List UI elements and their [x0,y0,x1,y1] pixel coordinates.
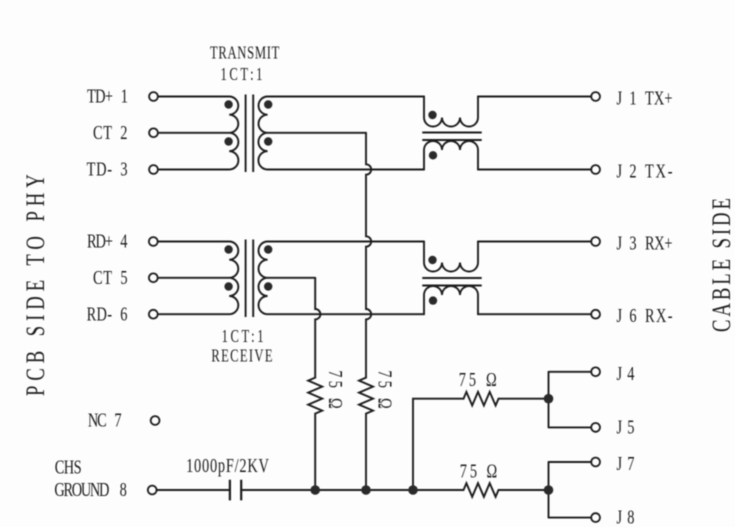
terminal pin 8 CHS GROUND [148,486,157,495]
resistor R4 75ohm horizontal on bus [464,483,499,497]
svg-text:RD-: RD- [87,302,113,325]
svg-text:1CT:1: 1CT:1 [222,327,264,347]
phase dot T1 secondary top [264,100,272,108]
terminal J3 [591,237,600,246]
wire vertical from T2 center tap with hop (x=315.2) [315,278,320,378]
svg-text:TD-: TD- [87,157,113,180]
wire vertical from T1 center tap with hops (x=366) [366,133,371,378]
terminal J2 [591,165,600,174]
svg-text:1: 1 [121,84,128,107]
phase dot L1 bottom [429,151,437,159]
resistor R1 75ohm vertical (x=315.2) [308,378,322,490]
svg-text:CABLE SIDE: CABLE SIDE [707,198,735,332]
svg-text:2: 2 [120,121,127,144]
svg-text:7: 7 [114,408,121,431]
terminal pin 5 CT [149,273,158,282]
wire J4/J5 split [549,372,592,428]
junction node bus/R1 [310,485,320,495]
svg-text:RD+: RD+ [87,229,113,252]
wire J2 line [478,169,591,171]
wire bus resistor to J7/J8 junction [499,489,549,491]
svg-text:RX+: RX+ [645,231,673,254]
svg-text:GROUND: GROUND [54,478,109,501]
terminal pin 6 RD- [149,310,158,319]
choke L1 core [422,133,481,141]
transformer T1 primary winding (TRANSMIT) [158,97,238,170]
resistor R3 75ohm horizontal (to J4/J5) [464,392,499,406]
transformer T2 primary winding (RECEIVE) [158,242,238,315]
terminal pin 1 TD+ [149,92,158,101]
phase dot T2 secondary top [264,245,272,253]
svg-text:CHS: CHS [55,455,82,478]
svg-text:6: 6 [120,302,127,325]
phase dot L2 top [428,256,436,264]
capacitor C1 1000pF/2KV [230,480,241,501]
junction node bus/R2 [361,485,371,495]
terminal pin 7 NC [151,416,160,425]
terminal pin 4 RD+ [149,237,158,246]
svg-text:1000pF/2KV: 1000pF/2KV [186,454,269,477]
wire J7/J8 split [549,462,592,518]
terminal J8 [591,513,600,522]
svg-text:8: 8 [120,478,127,501]
terminal J6 [591,310,600,319]
wire R3 to J4/J5 junction [499,398,549,400]
terminal J1 [591,92,600,101]
wire branch up from bus to R3 [413,399,464,490]
phase dot T1 primary top [224,100,232,108]
phase dot L2 bottom [429,296,437,304]
resistor R2 75ohm vertical (x=366) [359,378,373,490]
svg-text:RX-: RX- [645,304,673,327]
wire bus from capacitor to resistor R4 [241,489,463,491]
transformer T1 secondary winding [258,97,424,170]
wire ground lead [157,489,230,491]
terminal J7 [591,458,600,467]
wire J6 line [478,313,591,315]
terminal J4 [591,367,600,376]
svg-text:TD+: TD+ [87,84,113,107]
transformer T1 core [246,95,254,173]
terminal J5 [591,423,600,432]
svg-text:CT: CT [93,266,112,289]
phase dot L1 top [428,111,436,119]
junction node bus/J7/J8 [544,485,554,495]
transformer T2 secondary winding [259,242,425,315]
svg-text:4: 4 [120,229,127,252]
terminal pin 3 TD- [149,165,158,174]
junction node bus/branch [408,485,418,495]
phase dot T2 primary top [224,245,232,253]
phase dot T1 secondary bottom [264,137,272,145]
svg-text:NC: NC [88,408,107,431]
phase dot T1 primary bottom [224,137,232,145]
phase dot T2 secondary bottom [264,282,272,290]
svg-text:TX-: TX- [645,159,673,182]
choke L1 top winding (TX) [424,97,478,170]
choke L2 top winding (RX) [424,242,478,315]
svg-text:1CT:1: 1CT:1 [221,65,263,85]
junction node R3/J4/J5 [544,394,554,404]
svg-text:3: 3 [120,157,127,180]
svg-text:RECEIVE: RECEIVE [211,347,272,367]
wire J3 line [478,241,591,243]
svg-text:5: 5 [120,266,127,289]
transformer T2 core [246,240,254,318]
svg-text:TRANSMIT: TRANSMIT [210,44,280,64]
phase dot T2 primary bottom [224,282,232,290]
svg-text:TX+: TX+ [645,86,673,109]
wire J1 line [478,96,591,98]
svg-text:CT: CT [93,121,112,144]
terminal pin 2 CT [149,128,158,137]
svg-text:Ω: Ω [486,368,497,391]
svg-text:Ω: Ω [487,459,498,482]
choke L2 core [422,278,481,286]
